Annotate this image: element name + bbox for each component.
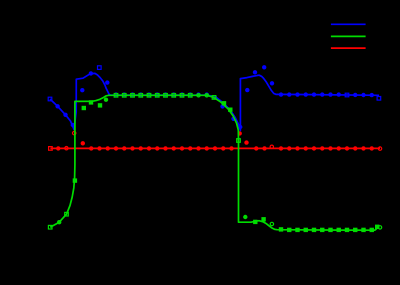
green series line xyxy=(50,95,377,230)
blue series fitted line xyxy=(50,73,379,130)
legend blue sample line xyxy=(331,23,366,25)
legend green sample line xyxy=(331,35,366,37)
legend red sample line xyxy=(331,47,366,49)
red series line xyxy=(50,147,380,149)
red data markers xyxy=(49,131,382,150)
blue data markers xyxy=(48,65,381,129)
green data markers xyxy=(48,94,381,233)
